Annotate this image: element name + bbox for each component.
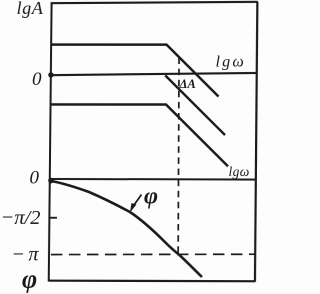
svg-text:−π/2: −π/2 — [0, 207, 40, 229]
curve A3: closed-loop gain LAFC (horizontal then slope) — [50, 104, 228, 166]
0 level line (lg-omega axis of amplitude plot) — [51, 73, 256, 75]
svg-text:φ: φ — [22, 264, 37, 293]
phase curve phi(omega) — [51, 181, 202, 277]
node: origin dot on 0 axis — [48, 72, 53, 77]
tick mark at -pi/2 — [49, 217, 57, 219]
svg-text:ΔA: ΔA — [179, 77, 196, 91]
arrow pointing to phase curve — [133, 195, 142, 207]
phi = 0 axis line (lg-omega axis of phase plot) — [51, 178, 256, 181]
dashed horizontal line at -pi level — [51, 253, 255, 256]
arrowhead of phi arrow — [130, 203, 137, 213]
dashed vertical line at break frequency — [177, 58, 180, 255]
svg-text:−π: −π — [11, 243, 42, 265]
svg-text:lgω: lgω — [228, 164, 249, 179]
node: origin dot of phase curve — [48, 178, 54, 184]
right border — [255, 2, 257, 282]
curve A2: slope branch leaving the 0 axis — [165, 75, 225, 135]
svg-text:lgA: lgA — [17, 0, 44, 18]
svg-text:lgω: lgω — [216, 54, 246, 71]
svg-text:0: 0 — [32, 69, 42, 90]
svg-text:0: 0 — [29, 167, 39, 188]
svg-text:φ: φ — [144, 184, 158, 210]
curve A1: open-loop gain LAFC (horizontal then -45deg slope) — [51, 45, 219, 97]
bottom border — [49, 280, 256, 283]
top border — [51, 2, 258, 4]
y-axis (lgA / phi axis, left frame edge) — [49, 3, 52, 281]
